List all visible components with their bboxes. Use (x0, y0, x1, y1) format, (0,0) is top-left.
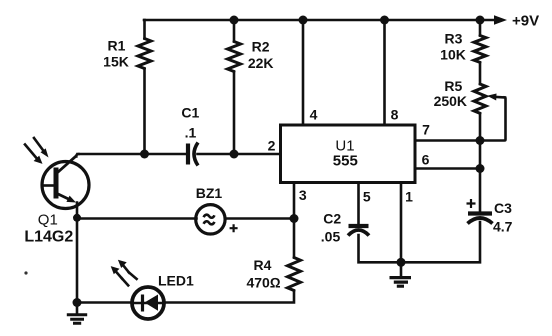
wire pin3 to R4 (293, 219, 296, 258)
svg-text:7: 7 (422, 122, 430, 138)
LED1 light arrow left (111, 266, 129, 285)
wire pin 1 (400, 183, 403, 263)
svg-text:R1: R1 (108, 38, 126, 54)
svg-text:R3: R3 (445, 31, 463, 47)
svg-text:C2: C2 (323, 211, 341, 227)
junction dot R2 top rail (230, 16, 239, 25)
transistor Q1 L14G2 (42, 156, 89, 209)
wire pin7 junction to pin6 junction (479, 141, 482, 169)
wire R5 to pin7 junction (479, 113, 482, 140)
LED LED1 (132, 287, 164, 319)
wire C3 bottom (401, 222, 480, 262)
junction dot pin3/buzzer (290, 214, 299, 223)
wire pin 4 (302, 20, 305, 125)
potentiometer R5 (474, 84, 486, 113)
svg-text:470Ω: 470Ω (246, 275, 280, 291)
junction dot R1/collector (140, 150, 149, 159)
wire pin 7 (415, 139, 480, 142)
wire R3 top (479, 20, 482, 36)
capacitor C1 (188, 143, 198, 166)
wire R3 to R5 (479, 62, 482, 84)
Q1 light arrow lower (25, 145, 43, 164)
wire pin 3 upper (293, 183, 296, 219)
svg-text:8: 8 (391, 107, 399, 123)
wire wiper loop (480, 97, 506, 140)
junction dot R2/collector (230, 150, 239, 159)
svg-text:2: 2 (268, 138, 276, 154)
resistor R3 (474, 36, 486, 63)
wire R4 bottom to LED (164, 291, 294, 303)
BZ1 plus polarity (230, 224, 238, 232)
wire Q1 collector riser (76, 154, 78, 157)
resistor R4 (288, 258, 301, 291)
wire buzzer to pin3 (226, 217, 295, 220)
svg-text:Q1: Q1 (38, 212, 58, 229)
wire ground to LED (77, 301, 132, 304)
svg-text:6: 6 (422, 152, 430, 168)
buzzer BZ1 (196, 205, 225, 234)
svg-text:1: 1 (405, 189, 413, 205)
wire R1 branch lower (143, 69, 146, 155)
junction dot emitter/led (73, 298, 82, 307)
resistor R2 (228, 42, 241, 72)
svg-text:L14G2: L14G2 (24, 229, 73, 246)
wire +9V top rail (144, 19, 494, 22)
wire Q1 emitter down (76, 203, 79, 303)
svg-text:10K: 10K (440, 47, 466, 63)
svg-text:C3: C3 (494, 200, 512, 216)
junction dot pin4 top rail (299, 16, 308, 25)
svg-text:+9V: +9V (512, 13, 539, 30)
svg-text:LED1: LED1 (158, 273, 194, 289)
wire pin 8 (383, 20, 386, 125)
resistor R1 (138, 39, 151, 69)
wire R1 branch upper (143, 20, 146, 39)
wire pin 5 (357, 183, 360, 226)
wire collector to C1 (78, 153, 187, 156)
wire pin 6 (415, 167, 480, 170)
junction dot R3 top rail (476, 16, 485, 25)
R5 wiper arrow (487, 94, 505, 101)
svg-text:250K: 250K (434, 93, 467, 109)
svg-text:R5: R5 (444, 78, 462, 94)
svg-text:555: 555 (333, 153, 358, 170)
svg-text:R2: R2 (252, 39, 270, 55)
junction dot pin6/C3 (476, 164, 485, 173)
wire C2 bottom rail (359, 235, 402, 262)
svg-text:C1: C1 (181, 105, 199, 121)
wire pin6 junction to C3 (479, 169, 482, 214)
ground under Q1 (67, 303, 87, 324)
wire R2 branch lower (233, 72, 236, 155)
svg-text:.05: .05 (321, 229, 341, 245)
Q1 light arrow upper (34, 138, 49, 158)
svg-text:R4: R4 (254, 257, 272, 273)
junction dot pin7/R5 (476, 136, 485, 145)
wire R2 branch upper (233, 20, 236, 42)
capacitor C2 (348, 226, 369, 236)
stray scan speck (24, 271, 27, 274)
junction dot pin8 top rail (380, 16, 389, 25)
svg-text:4.7: 4.7 (493, 219, 513, 235)
wire C1 to pin2 (198, 153, 281, 156)
junction dot pin1/bottom rail (397, 258, 406, 267)
svg-text:22K: 22K (248, 55, 274, 71)
junction dot emitter/buzzer (73, 214, 81, 222)
svg-text:5: 5 (363, 189, 371, 205)
LED1 light arrow right (118, 260, 137, 279)
svg-text:15K: 15K (103, 54, 129, 70)
svg-text:4: 4 (310, 107, 318, 123)
IC U1 555 timer box (281, 125, 416, 183)
svg-text:BZ1: BZ1 (196, 185, 223, 201)
svg-text:.1: .1 (185, 125, 197, 141)
capacitor C3 (467, 199, 493, 224)
wire emitter to buzzer (77, 217, 197, 220)
+9V arrowhead (494, 15, 507, 25)
ground under pin 1 (390, 262, 412, 286)
svg-text:3: 3 (299, 187, 307, 203)
